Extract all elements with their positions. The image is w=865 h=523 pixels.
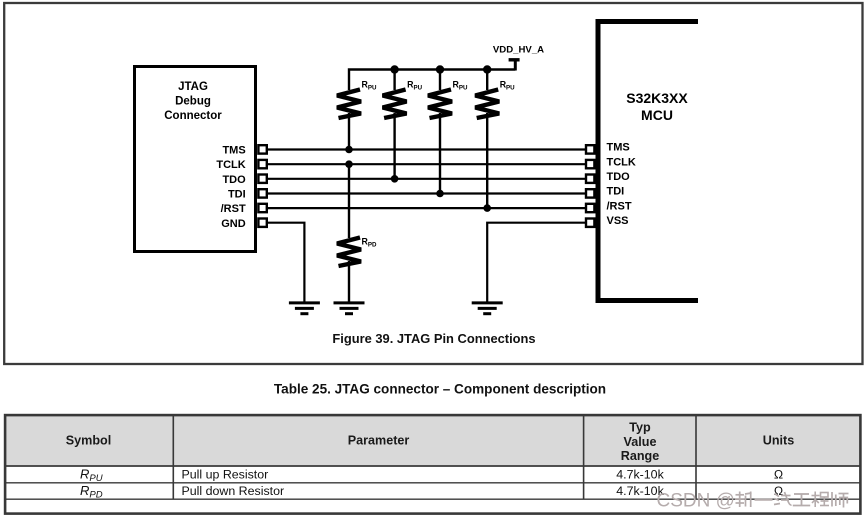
svg-text:Debug: Debug: [175, 96, 211, 108]
svg-text:Value: Value: [624, 435, 657, 449]
ground GND left: [289, 303, 320, 314]
svg-text:TMS: TMS: [607, 142, 630, 154]
svg-text:RPU: RPU: [407, 80, 422, 92]
connector pin squares: [258, 145, 266, 227]
svg-text:GND: GND: [221, 218, 246, 230]
svg-text:Units: Units: [763, 434, 794, 448]
watermark glyph xian: [774, 492, 792, 505]
svg-text:MCU: MCU: [641, 107, 673, 123]
ground RPD: [334, 303, 365, 314]
junction dot TMS-RPU1: [345, 146, 353, 154]
wire TDI: [266, 192, 587, 194]
svg-text:Typ: Typ: [629, 420, 651, 434]
watermark glyph xin: [735, 492, 752, 508]
svg-text:Ω: Ω: [774, 468, 783, 482]
svg-text:TDI: TDI: [607, 186, 625, 198]
svg-text:VSS: VSS: [607, 215, 629, 227]
junction dot bus-RPU3: [436, 65, 444, 73]
junction dot bus-RPU4: [483, 65, 491, 73]
junction dot TDO-RPU2: [391, 175, 399, 183]
svg-text:Range: Range: [621, 449, 660, 463]
svg-text:/RST: /RST: [221, 203, 246, 215]
wire TMS: [266, 148, 587, 150]
watermark glyph gong: [793, 494, 810, 506]
svg-text:/RST: /RST: [607, 200, 632, 212]
wire TDO: [266, 178, 587, 180]
svg-text:CSDN @: CSDN @: [657, 491, 735, 512]
svg-text:Pull down Resistor: Pull down Resistor: [182, 484, 285, 498]
svg-text:Connector: Connector: [164, 110, 222, 122]
watermark glyph shi: [832, 492, 849, 508]
svg-text:TDO: TDO: [222, 174, 246, 186]
svg-text:4.7k-10k: 4.7k-10k: [616, 468, 664, 482]
svg-text:RPU: RPU: [500, 80, 515, 92]
S32K3XX MCU block: [598, 22, 698, 301]
VDD_HV_A supply: [493, 45, 544, 60]
svg-text:TCLK: TCLK: [216, 159, 245, 171]
resistor RPU2: [383, 70, 423, 179]
JTAG debug connector box: [135, 67, 256, 252]
svg-text:Table 25. JTAG connector – Com: Table 25. JTAG connector – Component des…: [274, 381, 606, 396]
table header background: [6, 416, 859, 465]
svg-text:RPU: RPU: [80, 467, 103, 485]
svg-text:TMS: TMS: [222, 145, 245, 157]
junction dot RST-RPU4: [483, 204, 491, 212]
table title: [274, 381, 606, 396]
svg-text:Parameter: Parameter: [348, 434, 410, 448]
ground VSS: [472, 303, 503, 314]
MCU pin labels: [607, 142, 636, 227]
wire VSS to ground: [487, 223, 587, 302]
table grid: [4, 415, 861, 514]
watermark glyph cheng: [812, 492, 830, 508]
svg-text:Figure 39. JTAG Pin Connection: Figure 39. JTAG Pin Connections: [332, 331, 535, 346]
resistor RPU3: [428, 70, 468, 194]
table row RPD: [80, 483, 783, 501]
figure caption: [332, 331, 535, 346]
svg-text:Symbol: Symbol: [66, 434, 112, 448]
svg-text:RPU: RPU: [362, 80, 377, 92]
junction dot TDI-RPU3: [436, 190, 444, 198]
resistor RPU1: [337, 80, 377, 150]
svg-text:S32K3XX: S32K3XX: [626, 90, 688, 106]
watermark glyph yi: [755, 499, 773, 501]
junction dot TCLK-RPD: [345, 160, 353, 168]
table headers: [66, 420, 794, 463]
figure frame: [4, 3, 862, 364]
svg-text:RPU: RPU: [453, 80, 468, 92]
svg-text:RPD: RPD: [362, 237, 377, 249]
wire TCLK: [266, 163, 587, 165]
watermark CSDN: [657, 491, 735, 512]
resistor RPU4: [475, 70, 515, 209]
svg-text:TCLK: TCLK: [607, 156, 636, 168]
wire /RST: [266, 207, 587, 209]
VDD bus wire: [349, 61, 515, 91]
MCU pin squares: [586, 145, 594, 227]
svg-text:VDD_HV_A: VDD_HV_A: [493, 45, 544, 56]
svg-text:Pull up Resistor: Pull up Resistor: [182, 468, 269, 482]
resistor RPD: [337, 164, 377, 301]
wire GND to ground: [266, 223, 304, 302]
table row RPU: [80, 467, 783, 485]
connector pin labels: [216, 145, 246, 230]
svg-text:TDI: TDI: [228, 189, 246, 201]
svg-text:RPD: RPD: [80, 483, 103, 501]
junction dot bus-RPU2: [390, 65, 398, 73]
svg-text:JTAG: JTAG: [178, 81, 208, 93]
svg-text:TDO: TDO: [607, 171, 631, 183]
